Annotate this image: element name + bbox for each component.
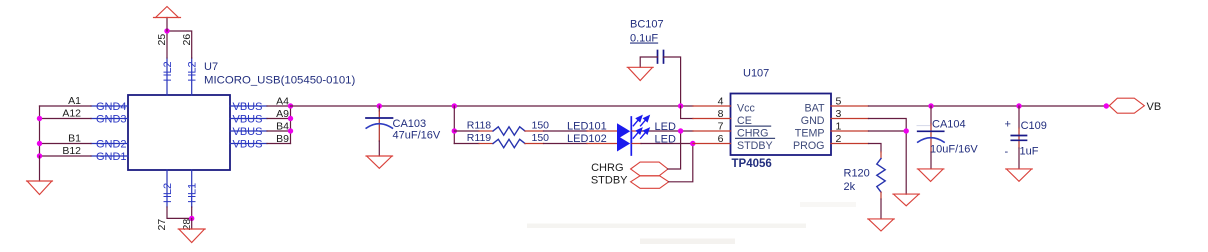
wire CE row bbox=[681, 118, 693, 120]
junction STDBY bbox=[690, 141, 695, 146]
wire pin25 up bbox=[166, 31, 168, 58]
svg-text:3: 3 bbox=[836, 108, 842, 120]
R118 left lead bbox=[479, 130, 493, 132]
wire pin28 down bbox=[191, 207, 193, 218]
wire BC107 right lead to rail bbox=[664, 57, 681, 106]
LED102 cathode lead bbox=[632, 143, 641, 145]
svg-text:B1: B1 bbox=[68, 133, 81, 145]
port VB hexagon bbox=[1109, 98, 1144, 113]
wire R118 to LED101 bbox=[544, 130, 588, 132]
wire C109 to ground bbox=[1018, 148, 1020, 169]
svg-text:1: 1 bbox=[836, 121, 842, 133]
ground (GND net) bbox=[893, 194, 920, 206]
junction CA103 bbox=[377, 103, 382, 108]
LED102 diode bbox=[617, 128, 649, 155]
U7 pin GND2 lead bbox=[91, 143, 128, 145]
resistor R118 bbox=[493, 127, 525, 135]
svg-text:A12: A12 bbox=[62, 108, 81, 120]
svg-text:HL2: HL2 bbox=[162, 183, 174, 203]
svg-text:R118: R118 bbox=[467, 120, 491, 132]
capacitor BC107 bbox=[658, 51, 664, 64]
svg-text:GND3: GND3 bbox=[96, 113, 127, 125]
U7 pin HL2 bottom-left lead bbox=[166, 170, 168, 207]
wire A9 row bbox=[267, 118, 291, 120]
capacitor CA104 bbox=[917, 126, 944, 143]
svg-text:C109: C109 bbox=[1021, 120, 1047, 132]
wire power stem bbox=[166, 18, 168, 32]
ground (BC107) bbox=[627, 67, 653, 80]
LED101 anode lead bbox=[587, 130, 617, 132]
junction TEMP/GND bbox=[904, 128, 909, 133]
wire R119 to LED102 bbox=[544, 143, 588, 145]
wire to R119 bbox=[454, 143, 479, 145]
wire BC107 left lead bbox=[640, 57, 657, 67]
svg-text:2: 2 bbox=[836, 133, 842, 145]
U7 pin VBUS A4 lead bbox=[230, 105, 267, 107]
svg-text:27: 27 bbox=[156, 219, 168, 231]
ground (CA104) bbox=[917, 169, 944, 182]
svg-text:U7: U7 bbox=[204, 61, 218, 73]
faint artifact right 1 bbox=[800, 202, 856, 207]
svg-text:LED: LED bbox=[655, 121, 676, 133]
svg-text:VBUS: VBUS bbox=[233, 113, 263, 125]
ground (R120) bbox=[868, 219, 895, 231]
svg-text:10uF/16V: 10uF/16V bbox=[930, 144, 978, 156]
U7 pin VBUS B9 lead bbox=[230, 143, 267, 145]
svg-text:CE: CE bbox=[737, 115, 752, 127]
svg-text:TEMP: TEMP bbox=[795, 127, 825, 139]
svg-text:A1: A1 bbox=[68, 95, 81, 107]
wire CA104 stem bbox=[930, 106, 932, 124]
junction B1 bbox=[37, 141, 42, 146]
junction B4 bbox=[288, 128, 293, 133]
U107 pin 3 GND lead bbox=[831, 118, 869, 120]
wire A12 row bbox=[40, 118, 92, 120]
U7 pin GND1 lead bbox=[91, 155, 128, 157]
wire STDBY port to pin6 row bbox=[669, 144, 693, 182]
IC U107 body bbox=[731, 94, 832, 156]
svg-text:STDBY: STDBY bbox=[591, 174, 628, 186]
svg-text:PROG: PROG bbox=[793, 140, 824, 152]
ground (USB shield) bbox=[27, 181, 53, 195]
junction BC107/CE bbox=[678, 103, 683, 108]
wire B12 row bbox=[40, 155, 92, 157]
svg-text:CA103: CA103 bbox=[393, 118, 427, 130]
svg-text:6: 6 bbox=[718, 133, 724, 145]
svg-text:BC107: BC107 bbox=[630, 19, 664, 31]
U107 pin 6 STDBY lead bbox=[693, 143, 731, 145]
capacitor C109 bbox=[1011, 136, 1026, 141]
svg-text:VBUS: VBUS bbox=[233, 126, 263, 138]
svg-text:GND4: GND4 bbox=[96, 101, 127, 113]
capacitor CA103 bbox=[366, 118, 393, 128]
wire B1 row bbox=[40, 143, 92, 145]
U107 pin 4 Vcc lead bbox=[693, 105, 731, 107]
U7 pin GND3 lead bbox=[91, 118, 128, 120]
wire to ground bbox=[39, 156, 41, 181]
junction B12 bbox=[37, 153, 42, 158]
svg-text:HL1: HL1 bbox=[187, 183, 199, 203]
svg-text:STDBY: STDBY bbox=[737, 140, 773, 152]
wire BAT rail bbox=[869, 105, 1107, 107]
U107 pin 7 CHRG lead bbox=[693, 130, 731, 132]
wire TEMP to GND net bbox=[869, 130, 907, 132]
svg-text:VBUS: VBUS bbox=[233, 138, 263, 150]
wire B9 row bbox=[267, 143, 291, 145]
svg-text:-: - bbox=[1005, 146, 1009, 158]
svg-text:LED101: LED101 bbox=[567, 121, 607, 133]
junction A12 bbox=[37, 116, 42, 121]
U107 pin 2 PROG lead bbox=[831, 143, 869, 145]
wire CA103 to ground bbox=[378, 141, 380, 156]
wire LED102 to STDBY pin bbox=[641, 143, 693, 145]
svg-text:HL2: HL2 bbox=[187, 61, 199, 81]
svg-text:150: 150 bbox=[532, 120, 550, 132]
wire A4 row bbox=[267, 105, 291, 107]
U7 pin GND4 lead bbox=[91, 105, 128, 107]
junction CHRG bbox=[678, 128, 683, 133]
junction R feed top bbox=[452, 103, 457, 108]
R118 right lead bbox=[525, 130, 544, 132]
svg-text:GND: GND bbox=[801, 115, 825, 127]
wire pin27 down bbox=[167, 207, 192, 218]
resistor R119 bbox=[493, 139, 525, 147]
svg-text:R119: R119 bbox=[467, 132, 491, 144]
wire to bottom ground bbox=[191, 218, 193, 229]
wire CHRG port to pin7 row bbox=[668, 131, 681, 169]
svg-text:CHRG: CHRG bbox=[737, 127, 768, 139]
svg-text:BAT: BAT bbox=[805, 102, 825, 114]
wire PROG to R120 bbox=[869, 144, 882, 153]
svg-text:R120: R120 bbox=[844, 168, 870, 180]
svg-text:CA104: CA104 bbox=[932, 119, 966, 131]
svg-text:B12: B12 bbox=[62, 145, 81, 157]
U107 pin 8 CE lead bbox=[693, 118, 731, 120]
R120 top lead bbox=[880, 152, 882, 159]
wire resistor feed vertical bbox=[453, 106, 455, 144]
wire GND net bbox=[869, 119, 907, 195]
junction R118 tap bbox=[452, 128, 457, 133]
R119 left lead bbox=[479, 143, 493, 145]
svg-text:CHRG: CHRG bbox=[591, 162, 623, 174]
svg-text:MICORO_USB(105450-0101): MICORO_USB(105450-0101) bbox=[204, 75, 356, 87]
wire C109 stem bbox=[1018, 106, 1020, 128]
svg-text:VB: VB bbox=[1147, 101, 1162, 113]
wire CA103 stem bbox=[378, 106, 380, 111]
svg-text:4: 4 bbox=[718, 96, 724, 108]
wire pin26 up bbox=[167, 31, 192, 58]
svg-text:GND1: GND1 bbox=[96, 151, 127, 163]
junction CA104 bbox=[928, 103, 933, 108]
svg-text:GND2: GND2 bbox=[96, 138, 127, 150]
wire A1 row bbox=[40, 105, 92, 107]
wire LED101 to CHRG pin bbox=[641, 130, 693, 132]
wire rail to CE row bbox=[680, 106, 682, 119]
svg-text:2k: 2k bbox=[844, 181, 856, 193]
svg-text:LED102: LED102 bbox=[567, 133, 607, 145]
wire VBUS rail bbox=[291, 105, 694, 107]
U7 pin HL1 bottom-right lead bbox=[191, 170, 193, 207]
svg-text:+: + bbox=[1005, 119, 1011, 131]
svg-text:VBUS: VBUS bbox=[233, 101, 263, 113]
LED101 diode bbox=[617, 116, 649, 143]
wire left ground bus bbox=[39, 106, 41, 156]
junction C109 bbox=[1016, 103, 1021, 108]
svg-text:0.1uF: 0.1uF bbox=[630, 33, 658, 45]
U7 pin HL2 top-right lead bbox=[191, 58, 193, 95]
svg-text:U107: U107 bbox=[743, 68, 769, 80]
svg-text:LED: LED bbox=[655, 134, 676, 146]
svg-text:8: 8 bbox=[718, 108, 724, 120]
junction bottom ground bbox=[189, 216, 194, 221]
svg-text:5: 5 bbox=[836, 96, 842, 108]
wire to R118 bbox=[454, 130, 479, 132]
resistor R120 bbox=[877, 159, 885, 193]
LED102 anode lead bbox=[587, 143, 617, 145]
svg-text:150: 150 bbox=[532, 132, 550, 144]
wire R120 to ground bbox=[880, 199, 882, 219]
wire CA104 to ground bbox=[930, 152, 932, 169]
connector U7 body bbox=[128, 95, 230, 170]
svg-text:7: 7 bbox=[718, 121, 724, 133]
power symbol bbox=[154, 7, 181, 18]
junction top power bbox=[164, 28, 169, 33]
ground (USB bottom) bbox=[178, 229, 205, 243]
U7 pin VBUS B4 lead bbox=[230, 130, 267, 132]
U107 pin 1 TEMP lead bbox=[831, 130, 869, 132]
R120 bottom lead bbox=[880, 192, 882, 199]
svg-text:TP4056: TP4056 bbox=[732, 158, 772, 170]
U7 pin VBUS A9 lead bbox=[230, 118, 267, 120]
LED101 cathode lead bbox=[632, 130, 641, 132]
U7 pin HL2 top-left lead bbox=[166, 58, 168, 95]
svg-text:1uF: 1uF bbox=[1020, 146, 1039, 158]
junction VB bbox=[1104, 103, 1109, 108]
R119 right lead bbox=[525, 143, 544, 145]
ground (CA103) bbox=[366, 156, 393, 168]
junction A4 bbox=[288, 103, 293, 108]
port STDBY hexagon bbox=[631, 176, 669, 189]
ground (C109) bbox=[1006, 169, 1033, 181]
svg-text:Vcc: Vcc bbox=[737, 102, 755, 114]
port CHRG hexagon bbox=[631, 162, 668, 176]
faint artifact bottom center bbox=[640, 239, 735, 245]
junction A9 bbox=[288, 116, 293, 121]
wire VBUS bus vertical bbox=[290, 106, 292, 144]
faint artifact band bbox=[527, 224, 806, 229]
U107 pin 5 BAT lead bbox=[831, 105, 869, 107]
svg-text:HL2: HL2 bbox=[162, 61, 174, 81]
wire B4 row bbox=[267, 130, 291, 132]
svg-text:47uF/16V: 47uF/16V bbox=[393, 130, 441, 142]
